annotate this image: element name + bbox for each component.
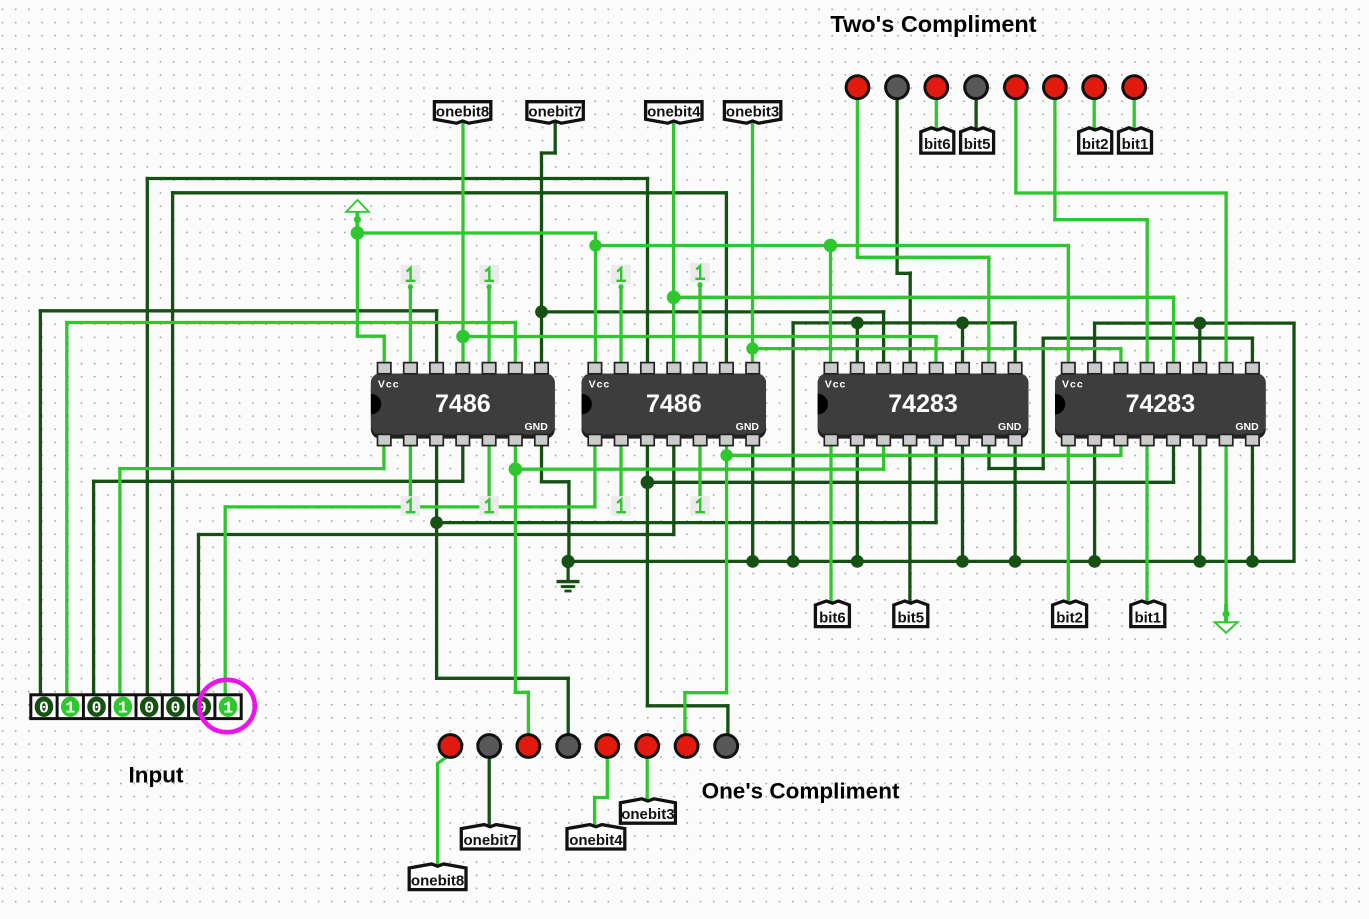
svg-text:Vcc: Vcc — [589, 379, 611, 391]
wire LED13 to onebit4 drop — [606, 757, 609, 798]
IC U3 74283 — [818, 363, 1029, 446]
wire U3 pin4 riser — [909, 273, 912, 365]
wire U2 gnd drop — [751, 444, 754, 561]
ground GND1 — [557, 561, 580, 591]
wire carry bus A — [793, 321, 1015, 324]
node onebit3 junction — [746, 342, 758, 354]
power V1 — [346, 200, 369, 233]
svg-text:onebit3: onebit3 — [621, 806, 674, 823]
svg-text:bit1: bit1 — [1122, 136, 1149, 153]
constant 1 U1pB5 — [479, 496, 498, 516]
wire U1 gnd jog — [542, 480, 569, 483]
IC U1 7486 — [371, 363, 555, 446]
wire LED1 drop — [856, 98, 859, 257]
svg-text:GND: GND — [1235, 421, 1259, 433]
label bit1 bottom — [1131, 601, 1165, 627]
wire onebit8 tag drop — [461, 124, 464, 365]
wire net-in1 horizontal — [40, 309, 436, 312]
node onebit4 junction — [667, 291, 681, 305]
wire net-in4 horizontal — [120, 467, 384, 470]
LED LED13 — [596, 735, 619, 758]
label onebit4 top — [646, 102, 702, 124]
wire U4 pin8 riser — [1251, 338, 1254, 365]
node onebit8 junction — [456, 330, 470, 344]
constant 1 U2pB2 — [611, 496, 630, 516]
wire U3 pin3 riser — [882, 312, 885, 365]
wire LED6 drop — [1053, 98, 1056, 220]
LED LED7 — [1083, 76, 1106, 99]
wire net-in5 to U2 pin3 — [646, 179, 649, 366]
wire net-in3 horizontal — [94, 480, 463, 483]
wire U4 pinB5 stub — [1172, 444, 1175, 482]
svg-text:Vcc: Vcc — [378, 379, 400, 391]
wire LED16 feed horizontal — [647, 704, 728, 707]
node xor E junction — [430, 516, 443, 529]
svg-text:0: 0 — [170, 699, 180, 718]
wire LED15 stub — [683, 693, 686, 735]
wire net-in5 horizontal — [147, 177, 647, 180]
wire LED8 to bit1 stub — [1133, 98, 1136, 131]
constant 1 U1p5 — [479, 265, 498, 290]
svg-text:1: 1 — [118, 699, 128, 718]
wire U2 pinB2 const stub — [619, 444, 622, 497]
wire bit6 tag drop — [829, 444, 832, 606]
wire U3 pin5 riser — [934, 337, 937, 366]
wire LED11 stub — [527, 692, 530, 735]
svg-text:7486: 7486 — [646, 390, 702, 418]
label bit6 top — [921, 128, 954, 153]
node ground junction 3 — [787, 555, 800, 568]
wire LED16 feed drop — [726, 706, 729, 735]
LED LED8 — [1123, 76, 1146, 99]
wire LED5 horizontal — [1016, 191, 1226, 194]
node ground junction 4 — [851, 555, 864, 568]
wire vcc to U4 pin1 — [1067, 246, 1070, 366]
wire U2 pinB4 drop — [672, 444, 675, 535]
label bit5 top — [961, 128, 994, 153]
LED LED10 — [478, 735, 501, 758]
wire bit2 tag drop — [1067, 444, 1070, 606]
node carry B junction — [1193, 317, 1206, 330]
wire U3 pinB7 jog — [989, 467, 1043, 470]
node ground junction 5 — [956, 555, 969, 568]
wire U4 pinB8 drop — [1251, 444, 1254, 561]
wire net-in4 drop — [118, 469, 121, 696]
node vcc junction 2 — [589, 239, 601, 251]
wire vcc rail upper — [357, 231, 595, 234]
wire U3 pinB6 drop — [961, 444, 964, 561]
LED LED6 — [1044, 76, 1067, 99]
wire sum bus G — [727, 454, 1121, 457]
wire gnd symbol drop — [1224, 444, 1227, 617]
wire vcc jog to U1 pin1 — [357, 335, 384, 338]
svg-text:Vcc: Vcc — [825, 379, 847, 391]
wire LED2 jog — [897, 272, 910, 275]
svg-text:0: 0 — [92, 699, 102, 718]
svg-text:0: 0 — [39, 699, 49, 718]
svg-text:Vcc: Vcc — [1062, 379, 1084, 391]
wire net-in7 horizontal — [199, 533, 674, 536]
svg-text:bit1: bit1 — [1134, 610, 1161, 627]
wire bit5 tag drop — [908, 444, 911, 606]
wire LED4 to bit5 stub — [974, 98, 977, 131]
svg-text:74283: 74283 — [1126, 390, 1196, 418]
wire U4 pinB6 drop — [1198, 444, 1201, 561]
wire onebit4 branch — [674, 296, 1174, 299]
wire gnd riser right — [1292, 323, 1295, 561]
wire U3 pinB3 stub — [882, 444, 885, 469]
LED LED11 — [517, 735, 540, 758]
wire U1 gnd riser — [567, 482, 570, 562]
wire LED3 to bit6 stub — [935, 98, 938, 131]
wire LED5 drop — [1014, 98, 1017, 193]
node vcc junction — [351, 226, 365, 240]
label onebit3 bottom — [620, 799, 675, 823]
wire onebit3 branch — [753, 347, 1121, 350]
wire onebit7 tag drop — [554, 124, 557, 153]
wire U2 pinB5 const stub — [698, 444, 701, 497]
wire U3 pinB8 drop — [1013, 444, 1016, 561]
wire U1 gnd stub — [540, 444, 543, 482]
LED LED5 — [1005, 76, 1028, 99]
svg-text:bit6: bit6 — [819, 610, 846, 627]
highlight circle — [199, 680, 255, 732]
node onebit7 junction — [535, 306, 548, 319]
svg-text:GND: GND — [524, 421, 548, 433]
LED LED16 — [715, 735, 738, 758]
svg-text:onebit8: onebit8 — [411, 873, 464, 890]
wire U4 pin2 riser — [1093, 323, 1096, 365]
constant 1 U2p5 — [690, 263, 709, 288]
label onebit4 bottom — [567, 825, 625, 849]
wire net-in6 vertical — [171, 193, 174, 696]
constant 1 U1pB2 — [401, 496, 420, 516]
LED LED14 — [636, 735, 659, 758]
wire U3 pin2 stub — [856, 323, 859, 365]
wire LED1 horizontal — [857, 256, 988, 259]
svg-text:bit6: bit6 — [924, 136, 951, 153]
wire LED12 feed drop — [567, 678, 570, 735]
wire vcc source drop — [356, 214, 359, 337]
wire U2 pin5 const drop — [698, 283, 701, 365]
label bit1 top — [1119, 128, 1152, 153]
wire xor out bus E — [437, 521, 936, 524]
svg-text:One's Compliment: One's Compliment — [702, 779, 900, 804]
wire U4 pin3 riser — [1119, 349, 1122, 365]
node sum G junction — [720, 449, 732, 461]
wire onebit4 tag drop — [672, 124, 675, 365]
wire U3 pin8 riser — [1013, 323, 1016, 365]
label onebit7 bottom — [461, 825, 519, 849]
label onebit8 bottom — [409, 864, 466, 890]
wire net-in6 to U2 pin6 — [725, 193, 728, 365]
wire U2 pinB1 drop — [593, 444, 596, 507]
wire LED15 jog — [685, 691, 727, 694]
svg-text:74283: 74283 — [888, 390, 958, 418]
LED LED3 — [925, 76, 948, 99]
svg-text:onebit8: onebit8 — [436, 104, 489, 121]
node vcc junction 3 — [824, 239, 838, 253]
wire xor out bus D — [647, 481, 1173, 484]
node ground junction 6 — [1009, 555, 1022, 568]
wire U1 pinB2 const stub — [409, 444, 412, 497]
wire onebit7 to U1 pin7 — [540, 153, 543, 365]
wire LED6 horizontal — [1055, 218, 1147, 221]
svg-text:bit2: bit2 — [1082, 136, 1109, 153]
wire LED13 jog — [595, 796, 608, 799]
wire net-in6 horizontal — [173, 191, 727, 194]
svg-text:1: 1 — [223, 699, 233, 718]
node ground junction 7 — [1088, 555, 1101, 568]
svg-text:GND: GND — [998, 421, 1022, 433]
wire LED12 feed horizontal — [437, 677, 569, 680]
wire U2 pinB3 drop — [646, 444, 649, 706]
svg-text:onebit4: onebit4 — [647, 104, 701, 121]
LED LED2 — [886, 76, 909, 99]
wire LED11 jog — [515, 691, 528, 694]
wire LED14 to onebit3 drop — [646, 757, 649, 804]
label onebit3 top — [724, 102, 780, 124]
svg-text:onebit7: onebit7 — [528, 104, 581, 121]
label bit2 top — [1079, 128, 1112, 153]
svg-text:1: 1 — [65, 699, 75, 718]
node ground junction 1 — [562, 555, 575, 568]
wire U3 pinB5 stub — [934, 444, 937, 523]
wire U1 pin5 const drop — [487, 285, 490, 365]
wire U1 pinB3 drop — [435, 444, 438, 678]
wire vcc rail lower — [596, 244, 1069, 247]
svg-text:Input: Input — [129, 763, 184, 788]
svg-text:0: 0 — [144, 699, 154, 718]
wire U1 pinB6 drop — [514, 444, 517, 692]
label bit6 bottom — [815, 601, 849, 627]
wire U3 pinB2 drop — [856, 444, 859, 561]
wire net-in3 drop — [92, 481, 95, 696]
wire U4 pin5 riser — [1172, 297, 1175, 365]
constant 1 U2p2 — [611, 265, 630, 290]
wire net-in1 vertical — [39, 311, 42, 696]
LED LED4 — [965, 76, 988, 99]
wire sum bus F — [515, 468, 883, 471]
svg-text:onebit7: onebit7 — [464, 832, 517, 849]
svg-text:onebit3: onebit3 — [726, 104, 779, 121]
wire U4 pin6 stub — [1198, 323, 1201, 365]
wire vcc rail step — [594, 233, 597, 365]
LED LED12 — [557, 735, 580, 758]
label bit2 bottom — [1053, 601, 1087, 627]
LED LED15 — [675, 735, 698, 758]
constant 1 U2pB5 — [690, 496, 709, 516]
wire net-in7 drop — [197, 535, 200, 697]
wire onebit4 tag stub — [593, 798, 596, 831]
node xor D junction — [641, 476, 655, 490]
wire U1 pinB1 stub — [382, 444, 385, 469]
wire U2 pinB6 drop — [725, 444, 728, 693]
IC U2 7486 — [582, 363, 766, 446]
node ground junction 2 — [746, 555, 759, 568]
wire U4 pinB3 stub — [1119, 444, 1122, 455]
wire U1 pin6 riser — [514, 323, 517, 366]
wire U2 pin2 const drop — [619, 285, 622, 365]
LED LED1 — [846, 76, 869, 99]
wire net-in1 to U1 pin3 — [435, 311, 438, 365]
svg-text:7486: 7486 — [435, 390, 491, 418]
wire onebit3 tag drop — [751, 124, 754, 365]
wire ground bus — [568, 560, 1294, 563]
wire net-in2 drop — [65, 323, 68, 697]
node ground junction 9 — [1246, 555, 1259, 568]
wire U3 pin6 stub — [961, 323, 964, 365]
wire U1 pinB4 stub — [461, 444, 464, 481]
wire vcc to U3 pin1 — [829, 246, 832, 366]
label onebit8 top — [434, 102, 490, 124]
wire carry jog C riser — [1042, 338, 1045, 468]
wire U3 pin7 riser — [987, 257, 990, 365]
wire U4 pinB2 drop — [1093, 444, 1096, 561]
wire U1 pin1 stub — [383, 336, 386, 365]
wire U4 pin7 riser — [1224, 193, 1227, 365]
node ground junction 8 — [1193, 555, 1206, 568]
wire U1 pin2 const drop — [409, 285, 412, 365]
LED LED9 — [439, 735, 462, 758]
node sum F junction — [509, 462, 523, 476]
ground GND2 — [1215, 604, 1238, 633]
wire onebit7 branch to U3 pin3 — [542, 310, 884, 313]
IC U4 74283 — [1055, 363, 1266, 446]
wire net-in5 vertical — [146, 179, 149, 697]
wire U4 pin4 riser — [1146, 220, 1149, 365]
wire carry bus A riser — [791, 323, 794, 562]
wire carry bus B — [1095, 321, 1294, 324]
node carry A junction 2 — [956, 317, 969, 330]
wire net-in2 horizontal — [67, 321, 516, 324]
svg-text:bit5: bit5 — [964, 136, 991, 153]
wire net-in8 horizontal — [225, 505, 595, 508]
wire carry jog C — [1043, 336, 1252, 339]
node carry A junction 1 — [851, 317, 864, 330]
svg-text:Two's Compliment: Two's Compliment — [830, 11, 1036, 37]
wire LED2 drop — [895, 98, 898, 273]
label onebit7 top — [527, 102, 583, 124]
svg-text:bit2: bit2 — [1056, 610, 1083, 627]
input IN1 byte cells — [31, 695, 241, 719]
wire U1 pinB5 const stub — [487, 444, 490, 497]
svg-text:bit5: bit5 — [897, 610, 924, 627]
wire onebit8 branch — [463, 335, 936, 338]
wire LED10 to onebit7 drop — [488, 757, 491, 830]
wire LED7 to bit2 stub — [1093, 98, 1096, 131]
wire onebit7 jog — [542, 151, 556, 154]
wire LED9 to onebit8 — [438, 755, 450, 869]
constant 1 U1p2 — [401, 265, 420, 290]
wire bit1 tag drop — [1145, 444, 1148, 606]
svg-text:GND: GND — [736, 421, 760, 433]
label bit5 bottom — [894, 601, 928, 627]
wire U3 pinB7 stub — [987, 444, 990, 469]
wire net-in8 drop — [224, 507, 227, 696]
svg-text:onebit4: onebit4 — [569, 832, 623, 849]
